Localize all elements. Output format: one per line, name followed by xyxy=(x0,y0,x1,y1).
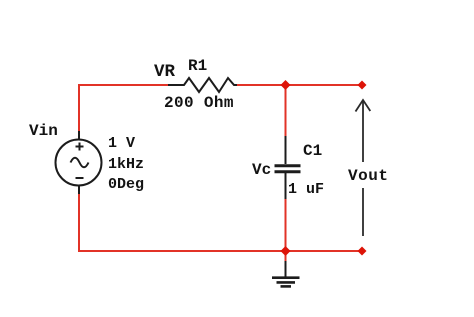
capacitor C1 lead top xyxy=(285,136,287,164)
svg-text:Vc: Vc xyxy=(252,161,271,179)
ground stub xyxy=(285,261,287,277)
ground bar 1 xyxy=(272,276,300,279)
AC source V1 lead top xyxy=(78,131,80,140)
Vout arrow shaft top segment xyxy=(362,100,364,162)
wire bottom-right segment (ground rail to output bottom) xyxy=(286,250,363,252)
AC source V1 circle xyxy=(56,140,102,186)
AC source minus sign xyxy=(76,177,84,179)
svg-text:R1: R1 xyxy=(188,57,207,75)
wire top-right segment (R1 to output node) xyxy=(237,84,362,86)
capacitor C1 plate top xyxy=(275,164,301,167)
svg-text:200 Ohm: 200 Ohm xyxy=(164,94,234,112)
wire capacitor top segment xyxy=(285,85,287,136)
svg-text:VR: VR xyxy=(154,62,176,82)
Vout arrow shaft bottom segment xyxy=(362,188,364,236)
ground bar 3 xyxy=(281,285,292,288)
svg-text:1 V: 1 V xyxy=(108,135,135,152)
svg-text:C1: C1 xyxy=(303,142,322,160)
ground bar 2 xyxy=(277,281,296,284)
wire capacitor bottom segment xyxy=(285,199,287,251)
svg-text:1kHz: 1kHz xyxy=(108,156,144,173)
wire ground stub (red part) xyxy=(285,251,287,261)
svg-text:Vin: Vin xyxy=(29,122,58,140)
AC source V1 lead bottom xyxy=(78,185,80,194)
wire left-bottom segment (Vin minus to ground rail) xyxy=(79,194,286,251)
node junction top (capacitor tap) xyxy=(281,80,291,90)
resistor R1 body xyxy=(168,78,237,92)
node terminal bottom-right xyxy=(358,247,367,256)
svg-text:Vout: Vout xyxy=(348,167,388,185)
node junction bottom (ground tap) xyxy=(281,246,291,256)
AC source sine symbol xyxy=(71,158,89,168)
node terminal top-right xyxy=(358,81,367,90)
wire top-left segment (node between Vin and R1) xyxy=(79,85,168,131)
svg-text:0Deg: 0Deg xyxy=(108,176,144,193)
AC source plus sign xyxy=(76,143,84,151)
capacitor C1 lead bottom xyxy=(285,173,287,199)
Vout arrow head xyxy=(356,100,371,112)
capacitor C1 plate bottom xyxy=(275,170,301,173)
svg-text:1 uF: 1 uF xyxy=(288,181,324,198)
